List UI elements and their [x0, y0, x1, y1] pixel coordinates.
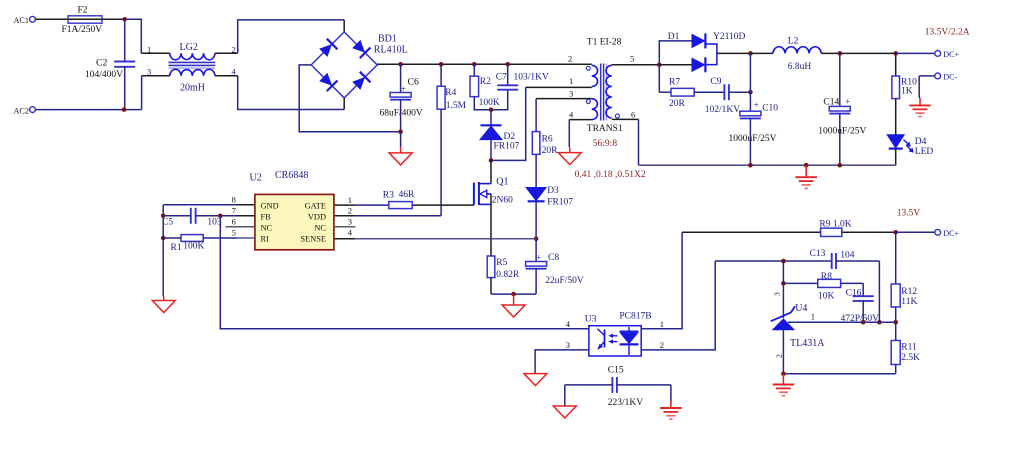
resistor R6 — [535, 99, 537, 132]
svg-text:1: 1 — [569, 76, 573, 86]
svg-text:T1 EI-28: T1 EI-28 — [587, 37, 622, 47]
svg-text:DC-: DC- — [943, 73, 957, 82]
junction R10 top — [893, 51, 898, 56]
wire LG2 pin4 riser to bottom rail — [238, 76, 345, 110]
svg-text:1K: 1K — [901, 87, 913, 97]
svg-text:22uF/50V: 22uF/50V — [545, 276, 584, 286]
transformer T1 secondary winding — [606, 65, 612, 118]
resistor R10 — [895, 53, 897, 76]
T1 polarity dot pin6 — [615, 114, 619, 118]
svg-text:3: 3 — [147, 66, 151, 76]
svg-text:NC: NC — [261, 223, 273, 232]
wire REF vertical — [782, 261, 784, 318]
capacitor C10 — [749, 92, 751, 111]
svg-text:2.5K: 2.5K — [901, 353, 920, 363]
wire NC pin6 stub — [226, 226, 255, 228]
svg-text:LED: LED — [915, 147, 934, 157]
svg-text:223/1KV: 223/1KV — [608, 398, 644, 408]
svg-text:2: 2 — [568, 54, 572, 64]
svg-text:56:9:8: 56:9:8 — [593, 139, 618, 149]
svg-text:NC: NC — [314, 223, 326, 232]
svg-text:F2: F2 — [78, 5, 88, 15]
inductor L2 — [750, 52, 773, 54]
junction C14 top — [838, 51, 843, 56]
svg-text:+: + — [401, 84, 406, 94]
wire FB to opto pin4 — [220, 216, 589, 329]
svg-text:4: 4 — [232, 66, 237, 76]
junction C6 bottom — [398, 129, 403, 134]
wire T1 pin4 to ground — [569, 119, 591, 121]
resistor R9 — [821, 228, 842, 236]
junction T1 pin5 node — [657, 63, 662, 68]
svg-text:2: 2 — [232, 44, 236, 54]
BD1 diode upper-left — [319, 44, 332, 57]
junction C16 bottom — [861, 320, 866, 325]
svg-text:FR107: FR107 — [547, 198, 573, 208]
capacitor C2 — [124, 19, 126, 61]
wire C15 left to ground — [564, 385, 566, 406]
svg-text:U4: U4 — [795, 303, 807, 314]
wire TL431 cathode line — [788, 321, 896, 323]
capacitor C16 — [862, 283, 864, 296]
svg-text:46R: 46R — [399, 190, 416, 200]
wire D1 to rail — [717, 52, 751, 54]
svg-text:GATE: GATE — [305, 202, 326, 211]
LG2 core — [169, 61, 216, 63]
svg-text:DC+: DC+ — [943, 229, 959, 238]
junction ground rail — [511, 292, 516, 297]
svg-text:U2: U2 — [250, 173, 262, 184]
ground at opto pin3 — [524, 374, 547, 386]
ground at C15 left — [553, 406, 576, 418]
resistor R5 — [490, 239, 492, 256]
bridge rectifier BD1 diamond — [311, 32, 377, 98]
svg-text:F1A/250V: F1A/250V — [62, 25, 103, 35]
svg-text:11K: 11K — [901, 297, 917, 307]
svg-text:Y2110D: Y2110D — [713, 32, 746, 42]
svg-text:R12: R12 — [901, 287, 917, 297]
svg-text:1: 1 — [147, 44, 151, 54]
svg-text:68uF/400V: 68uF/400V — [380, 108, 423, 118]
junction C6 top — [398, 62, 403, 67]
svg-text:20R: 20R — [669, 99, 686, 109]
junction AC2/C2 — [122, 107, 127, 112]
junction C13 riser bottom — [877, 320, 882, 325]
junction D2 anode / Q1 drain — [489, 158, 494, 163]
svg-text:U3: U3 — [585, 314, 597, 324]
svg-text:R3: R3 — [383, 191, 394, 201]
capacitor C7 — [507, 64, 509, 85]
svg-text:R1: R1 — [171, 243, 182, 253]
svg-text:1.5M: 1.5M — [446, 101, 467, 111]
wire VDD line pin2 to R4 — [334, 215, 356, 217]
capacitor C13 — [715, 260, 831, 262]
svg-text:2: 2 — [774, 354, 783, 358]
svg-text:0.82R: 0.82R — [496, 270, 520, 280]
wire TL431 anode — [782, 330, 784, 374]
svg-text:SENSE: SENSE — [300, 234, 326, 243]
wire DC bus — [377, 63, 592, 65]
node DC- terminal — [935, 73, 941, 79]
svg-text:10K: 10K — [818, 291, 835, 301]
T1 polarity dot pin3 — [586, 100, 590, 104]
svg-text:R11: R11 — [901, 343, 917, 353]
svg-text:D2: D2 — [504, 132, 516, 142]
svg-text:R8: R8 — [821, 272, 832, 282]
svg-text:13.5V: 13.5V — [897, 208, 921, 218]
wire GATE line — [334, 204, 356, 206]
wire rail L2 to R10 — [840, 52, 896, 54]
BD1 diode lower-left — [319, 73, 332, 86]
junction R12/R11 — [893, 320, 898, 325]
svg-text:+: + — [845, 96, 850, 106]
svg-text:C7: C7 — [496, 73, 507, 83]
transistor U4 TL431A symbol — [772, 318, 796, 330]
wire secondary ground rail — [639, 164, 896, 166]
junction lower DC+ node — [893, 230, 898, 235]
svg-text:LG2: LG2 — [180, 42, 198, 53]
svg-text:3: 3 — [566, 340, 570, 350]
svg-text:Q1: Q1 — [496, 176, 508, 187]
svg-text:CR6848: CR6848 — [275, 170, 308, 181]
BD1 bottom stub — [343, 98, 345, 110]
resistor R12 — [895, 232, 897, 284]
svg-text:103/1KV: 103/1KV — [514, 73, 550, 83]
inductor LG2 bottom winding — [142, 75, 170, 77]
earth ground on rail — [805, 165, 807, 177]
wire BD1 left vertex to DC- path — [299, 65, 400, 132]
svg-text:C13: C13 — [810, 249, 826, 259]
wire rail to C9 node — [749, 53, 751, 92]
T1 polarity dot pin2 — [586, 66, 590, 70]
resistor R7 — [658, 65, 660, 92]
svg-text:20mH: 20mH — [180, 83, 205, 94]
ground below U2 — [163, 297, 165, 301]
svg-text:3: 3 — [772, 292, 781, 296]
earth ground below TL431 — [782, 374, 784, 385]
capacitor C6 — [400, 64, 402, 92]
earth ground at DC- — [919, 98, 921, 105]
svg-text:RL410L: RL410L — [374, 45, 408, 56]
svg-text:4: 4 — [569, 110, 574, 120]
wire junction to LG2 pin1 jog — [125, 19, 142, 53]
node DC+ terminal — [935, 51, 941, 57]
wire T1 pin6 riser — [612, 118, 639, 120]
svg-text:3: 3 — [569, 88, 573, 98]
svg-text:5: 5 — [630, 54, 634, 64]
svg-text:R5: R5 — [496, 258, 507, 268]
ground below C6 — [400, 132, 402, 147]
junction R8 left — [781, 281, 786, 286]
junction R4 top — [439, 62, 444, 67]
svg-text:3: 3 — [348, 217, 352, 227]
capacitor C9 — [723, 84, 725, 100]
wire SENSE line — [334, 238, 356, 240]
wire C13 right riser — [878, 261, 880, 322]
node lower DC+ terminal — [935, 229, 941, 235]
transformer T1 primary winding bottom — [592, 99, 598, 120]
wire T1 pin3 to R6 — [536, 98, 592, 100]
wire opto pin3 to ground — [535, 350, 589, 374]
svg-text:C8: C8 — [548, 253, 559, 263]
wire AC2 line — [35, 109, 141, 111]
svg-text:7: 7 — [232, 206, 236, 216]
fuse F2 — [63, 18, 107, 20]
opto-coupler U3 PC817B — [589, 326, 641, 356]
svg-text:R9 1.0K: R9 1.0K — [819, 220, 851, 230]
svg-text:D3: D3 — [547, 186, 559, 196]
svg-text:FR107: FR107 — [494, 142, 520, 152]
wire AC1 to fuse — [35, 18, 68, 20]
svg-text:1: 1 — [811, 311, 815, 321]
junction earth rail — [804, 163, 809, 168]
svg-text:1: 1 — [660, 319, 664, 329]
svg-text:C16: C16 — [846, 289, 862, 299]
svg-text:R4: R4 — [445, 88, 456, 98]
junction AC1/C2 — [122, 17, 127, 22]
svg-text:PC817B: PC817B — [619, 311, 651, 321]
wire NC pin3 stub — [334, 226, 356, 228]
junction R1 left — [161, 236, 166, 241]
junction R2 top — [472, 62, 477, 67]
svg-text:1: 1 — [348, 195, 352, 205]
transformer T1 primary winding top — [592, 65, 598, 86]
wire DC- to earth — [919, 75, 935, 77]
junction FB riser — [218, 214, 223, 219]
capacitor C8 — [535, 239, 537, 262]
svg-text:C2: C2 — [96, 58, 108, 69]
svg-text:RI: RI — [261, 234, 270, 243]
resistor R11 — [895, 322, 897, 340]
junction C13/REF — [781, 259, 786, 264]
svg-text:5: 5 — [232, 228, 236, 238]
svg-text:1000uF/25V: 1000uF/25V — [729, 134, 777, 144]
svg-text:4: 4 — [566, 319, 571, 329]
wire R11 bottom to TL431 anode — [784, 373, 896, 375]
wire U2 left ground vertical — [162, 205, 164, 297]
wire to lower DC+ terminal — [896, 231, 935, 233]
svg-text:D1: D1 — [668, 32, 680, 42]
svg-text:6: 6 — [631, 110, 635, 120]
svg-text:BD1: BD1 — [378, 34, 397, 45]
svg-text:+: + — [754, 100, 759, 110]
BD1 top stub — [343, 20, 345, 32]
BD1 diode upper-right — [352, 40, 365, 53]
D1 output bracket — [705, 44, 717, 65]
wire T1 pin5 — [612, 64, 660, 66]
svg-text:C6: C6 — [408, 76, 420, 87]
resistor R8 — [783, 282, 817, 284]
svg-text:AC2: AC2 — [14, 106, 29, 115]
diode D3 — [526, 188, 546, 201]
svg-text:2N60: 2N60 — [492, 196, 513, 206]
svg-text:104: 104 — [840, 251, 855, 261]
ground below R5/C8 — [513, 294, 515, 305]
svg-text:C15: C15 — [608, 365, 624, 375]
wire opto1 to R9 — [682, 231, 821, 233]
svg-text:100K: 100K — [183, 241, 204, 251]
svg-text:2: 2 — [348, 206, 352, 216]
svg-text:6.8uH: 6.8uH — [788, 62, 812, 72]
svg-text:VDD: VDD — [308, 213, 326, 222]
svg-text:13.5V/2.2A: 13.5V/2.2A — [925, 27, 970, 37]
svg-text:C14: C14 — [823, 97, 839, 107]
junction C5 left — [161, 214, 166, 219]
diode D1 upper — [659, 41, 692, 65]
wire drain node to T1 pin1 — [491, 87, 526, 160]
op-amp U2 CR6848 box — [255, 194, 334, 249]
svg-text:TL431A: TL431A — [790, 338, 825, 349]
svg-text:R2: R2 — [480, 77, 491, 87]
junction C14 bottom — [838, 163, 843, 168]
svg-text:C9: C9 — [710, 77, 721, 87]
svg-text:FB: FB — [261, 213, 272, 222]
wire opto pin1 riser — [641, 232, 682, 328]
resistor R3 — [389, 202, 412, 209]
svg-text:104/400V: 104/400V — [85, 70, 123, 80]
svg-text:100K: 100K — [479, 98, 500, 108]
wire opto pin2 riser — [641, 261, 715, 350]
capacitor C15 — [611, 377, 613, 393]
svg-text:DC+: DC+ — [943, 50, 959, 59]
resistor R1 — [203, 237, 237, 239]
svg-text:20R: 20R — [542, 146, 559, 156]
wire fuse to junction — [102, 18, 125, 20]
capacitor C5 — [220, 215, 237, 217]
wire R5/C8 ground rail — [491, 293, 536, 295]
svg-text:+: + — [536, 252, 541, 262]
junction C10 bottom — [748, 163, 753, 168]
svg-text:8: 8 — [232, 195, 236, 205]
junction C7 top — [505, 62, 510, 67]
diode D2 — [490, 110, 492, 126]
wire GND pin8 — [163, 204, 237, 206]
svg-text:C10: C10 — [762, 103, 778, 113]
svg-text:D4: D4 — [915, 137, 927, 147]
LED D4 — [887, 135, 904, 148]
junction R2/C7/D2 — [489, 108, 494, 113]
svg-text:4: 4 — [348, 228, 353, 238]
transformer T1 core — [600, 64, 602, 121]
BD1 diode lower-right — [352, 77, 365, 90]
junction D3/C8/SENSE — [534, 236, 539, 241]
svg-text:0.41 ,0.18 ,0.51X2: 0.41 ,0.18 ,0.51X2 — [575, 170, 646, 180]
svg-text:1000uF/25V: 1000uF/25V — [818, 127, 866, 137]
wire LG2 pin2 riser to top rail — [238, 20, 345, 53]
svg-text:R7: R7 — [669, 77, 680, 87]
capacitor C14 — [839, 53, 841, 106]
earth ground at C15 right — [670, 401, 672, 408]
junction rail after D1 — [748, 51, 753, 56]
resistor R2 — [473, 64, 475, 76]
junction TL431 anode — [781, 372, 786, 377]
ground at T1 pin4 — [569, 147, 571, 152]
resistor R4 — [440, 64, 442, 86]
svg-text:6: 6 — [232, 216, 236, 226]
svg-text:R6: R6 — [542, 134, 553, 144]
inductor LG2 top winding — [141, 52, 170, 54]
svg-text:GND: GND — [261, 202, 279, 211]
wire to DC+ terminal — [896, 52, 935, 54]
diode D1 lower — [659, 64, 692, 66]
wire C15 right to earth — [670, 385, 672, 401]
svg-text:L2: L2 — [788, 36, 799, 46]
junction C9/C10 — [748, 90, 753, 95]
wire AC2 riser to LG2 pin3 — [141, 76, 143, 110]
svg-text:TRANS1: TRANS1 — [587, 124, 623, 134]
svg-text:102/1KV: 102/1KV — [705, 105, 741, 115]
svg-text:2: 2 — [660, 340, 664, 350]
transistor Q1 MOSFET — [490, 160, 492, 183]
svg-text:AC1: AC1 — [14, 16, 29, 25]
